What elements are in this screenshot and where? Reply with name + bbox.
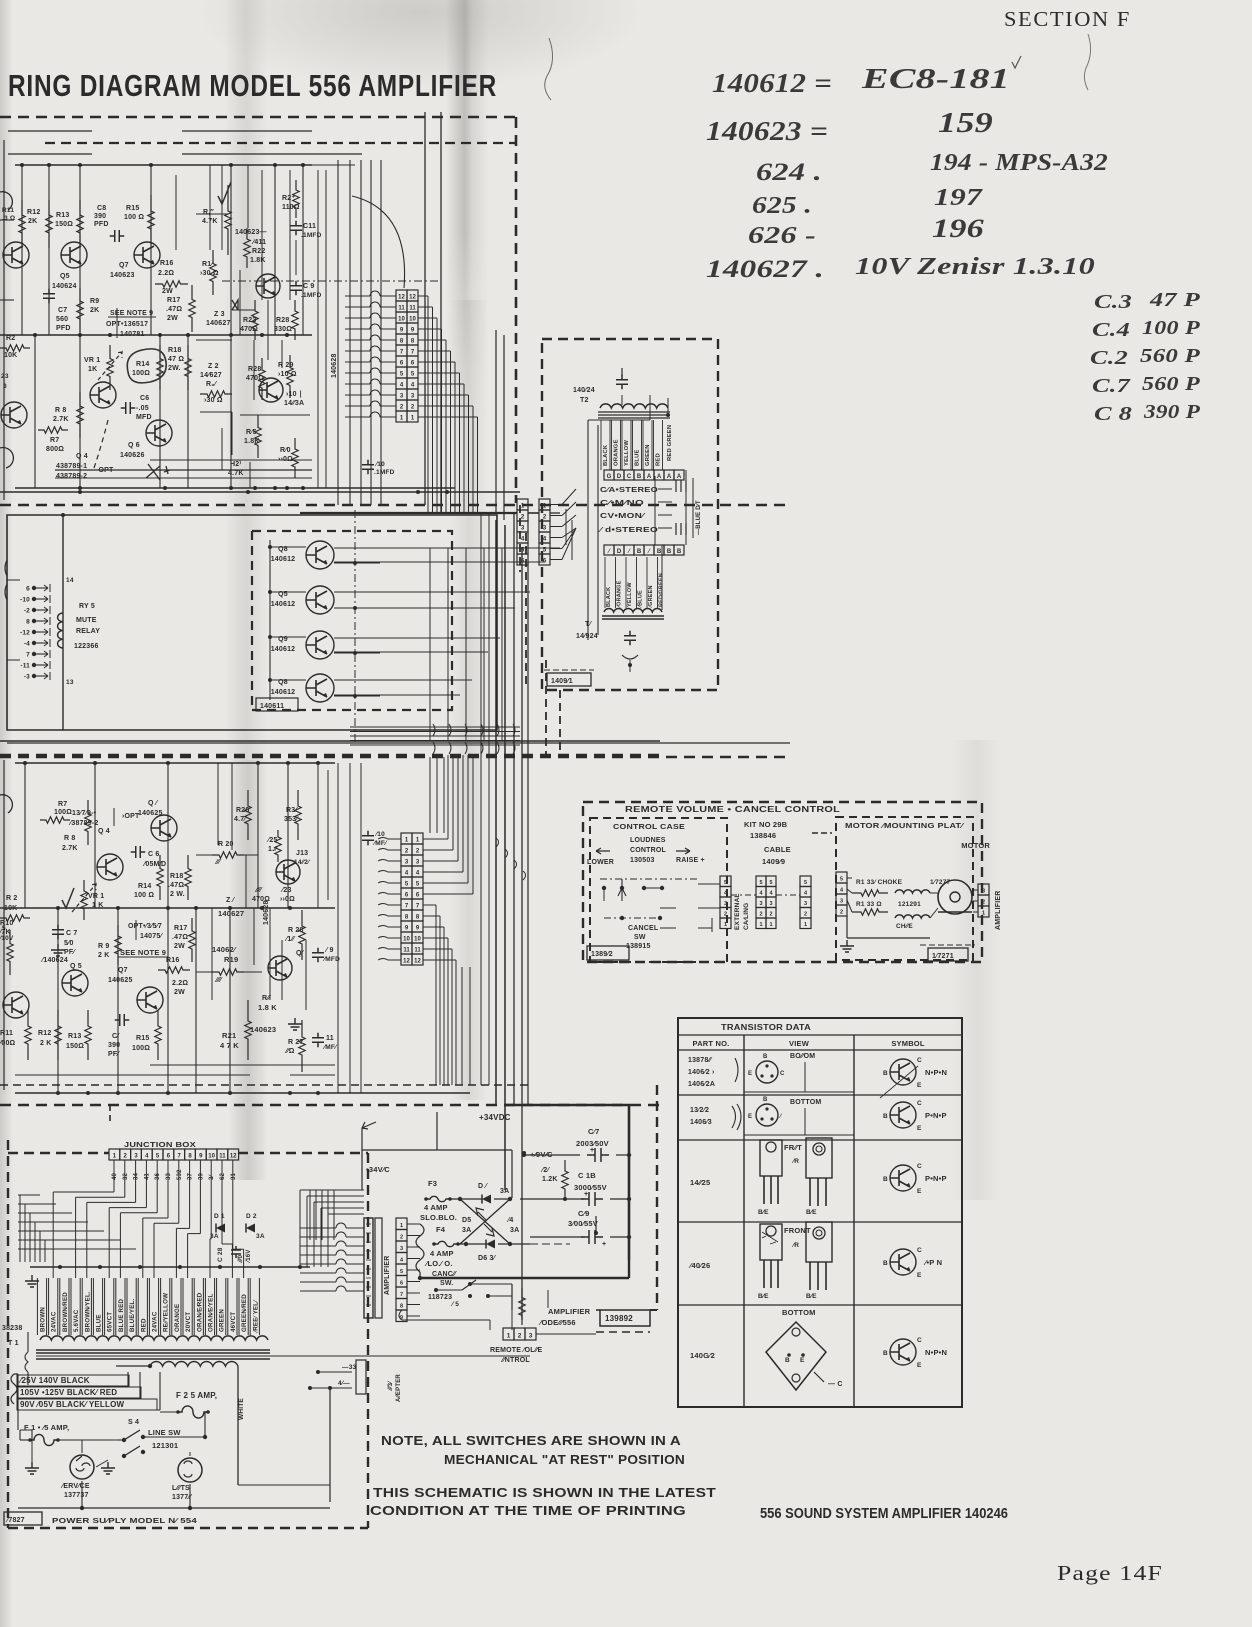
svg-text:3⁄00⁄55V: 3⁄00⁄55V (568, 1219, 598, 1228)
svg-text:10: 10 (409, 317, 416, 323)
wire connector stubs left (345, 295, 370, 297)
svg-text:R11: R11 (0, 1030, 13, 1037)
svg-text:140781: 140781 (120, 331, 145, 338)
svg-text:353⁄: 353⁄ (284, 816, 299, 823)
svg-text:14⁄⁄3A: 14⁄⁄3A (284, 400, 304, 407)
transistor Q5 (61, 242, 87, 268)
resistor R27 (299, 1020, 305, 1072)
svg-text:N•P•N: N•P•N (925, 1068, 947, 1077)
svg-text:R28: R28 (276, 317, 289, 324)
svg-text:R28: R28 (248, 366, 261, 373)
capacitor C18 (581, 1192, 603, 1206)
svg-text:4: 4 (145, 1154, 149, 1160)
svg-text:6: 6 (405, 893, 409, 899)
svg-text:3: 3 (759, 901, 762, 907)
resistor R22 (244, 228, 250, 268)
resistor R25 (275, 830, 281, 862)
svg-text:36: 36 (155, 1172, 161, 1180)
svg-text:CONDITION AT THE TIME OF PRINT: CONDITION AT THE TIME OF PRINTING (370, 1504, 686, 1518)
svg-text:⁄25V 140V BLACK: ⁄25V 140V BLACK (18, 1376, 90, 1385)
wire amp2 left margin (3, 760, 5, 1090)
wire strip feeds (300, 1227, 336, 1229)
svg-text:C11: C11 (303, 223, 316, 230)
wire c19 rail (530, 1236, 584, 1238)
wire relay vertical (62, 515, 64, 730)
svg-text:MUTE: MUTE (76, 617, 97, 624)
amp2 top wire (0, 740, 660, 742)
svg-text:C⁄9: C⁄9 (578, 1209, 589, 1218)
svg-text:E: E (917, 1272, 922, 1279)
wire collector bus (269, 540, 271, 700)
connector amp edge (396, 1218, 407, 1230)
svg-text:3⁄: 3⁄ (209, 1173, 215, 1180)
svg-text:AMPLIFIER: AMPLIFIER (384, 1255, 391, 1295)
svg-text:A⁄⁄EPTER: A⁄⁄EPTER (396, 1374, 402, 1402)
transistor Q1a (3, 242, 29, 268)
svg-text:121291: 121291 (898, 901, 921, 908)
capacitor C28 (231, 1246, 241, 1258)
svg-text:RELAY: RELAY (76, 628, 100, 635)
svg-text:B⁄E: B⁄E (806, 1209, 817, 1216)
svg-text:6: 6 (411, 361, 415, 367)
svg-text:R19: R19 (224, 955, 238, 964)
capacitor C11 (290, 221, 302, 236)
transistor Q10 (259, 378, 283, 402)
svg-text:1: 1 (400, 416, 404, 422)
resistor R20a (200, 391, 232, 397)
wire emitter Q5 (334, 607, 380, 609)
resistor R15b (155, 1010, 161, 1060)
svg-text:JUNCTION BOX: JUNCTION BOX (124, 1140, 196, 1149)
resistor R28b (259, 358, 265, 400)
transistor box 140611 dashed (252, 531, 452, 710)
resistor R7b (40, 817, 70, 823)
svg-text:MFD: MFD (136, 414, 152, 421)
svg-text:1: 1 (804, 922, 807, 928)
label box 140611 (256, 698, 298, 711)
svg-text:65VCT: 65VCT (107, 1312, 114, 1332)
wire conn2 fan (423, 838, 448, 840)
svg-text:14⁄627: 14⁄627 (200, 372, 222, 379)
wire connector fan right (418, 295, 428, 297)
transformer T2 bottom cap (624, 631, 636, 646)
resistor R17 (189, 285, 195, 332)
svg-text:6: 6 (416, 893, 420, 899)
wire density top extra (175, 175, 177, 250)
transformer T2 bottom winding (604, 609, 662, 612)
wire right risers (317, 170, 319, 488)
svg-text:⁄ERV⁄CE: ⁄ERV⁄CE (60, 1483, 90, 1490)
svg-text:MOTOR: MOTOR (961, 841, 990, 850)
wire taps (18, 1385, 128, 1387)
svg-text:560 P: 560 P (1142, 373, 1201, 395)
svg-text:Q5: Q5 (60, 273, 70, 280)
svg-text:—BLUE D⁄T: —BLUE D⁄T (696, 500, 702, 535)
svg-text:140623: 140623 (250, 1025, 276, 1034)
wire blue dot vertical (685, 470, 687, 545)
svg-text:3: 3 (724, 901, 727, 907)
wire verticals left (21, 165, 23, 335)
svg-text:3: 3 (521, 526, 525, 532)
handwritten check b (62, 888, 74, 908)
connector strip amplifier (364, 1218, 373, 1318)
table sym row3 (890, 1165, 916, 1191)
svg-text:BO⁄⁄OM: BO⁄⁄OM (790, 1053, 815, 1060)
svg-text:118723: 118723 (428, 1294, 452, 1301)
svg-text:2: 2 (400, 1234, 403, 1240)
svg-text:SEE NOTE 9: SEE NOTE 9 (120, 948, 166, 957)
diode bridge X (460, 1199, 510, 1244)
table sym row1 (890, 1059, 916, 1085)
svg-text:BOTTOM: BOTTOM (782, 1308, 816, 1317)
svg-text:ORAN⁄E⁄RED: ORAN⁄E⁄RED (196, 1292, 203, 1332)
svg-text:R13: R13 (56, 212, 69, 219)
resistor R7 (38, 427, 68, 433)
svg-text:CONTROL: CONTROL (630, 847, 667, 854)
svg-text:5: 5 (405, 882, 409, 888)
amp2 bottom dashed (0, 1104, 660, 1106)
wire output h2 (334, 591, 530, 593)
wire conn2 left stubs (378, 838, 401, 840)
svg-text:1.8K: 1.8K (244, 438, 260, 445)
svg-text:R22: R22 (252, 248, 265, 255)
svg-text:C⁄7: C⁄7 (588, 1127, 599, 1136)
resistor R21a (225, 185, 231, 255)
svg-text:R2: R2 (6, 335, 15, 342)
svg-text:B: B (763, 1097, 768, 1103)
table col lines (743, 1035, 745, 1407)
svg-text:62: 62 (220, 1172, 226, 1180)
capacitor C9b (312, 948, 324, 963)
dashed border right of rect (656, 1085, 658, 1310)
resistor R27a (293, 180, 299, 218)
connector amp1 12pin (396, 290, 407, 301)
svg-text:7: 7 (178, 1154, 182, 1160)
resistor R18 (185, 345, 191, 390)
svg-text:3: 3 (405, 860, 409, 866)
svg-text:3A: 3A (510, 1227, 519, 1234)
svg-text:5: 5 (759, 880, 762, 886)
svg-text:140625: 140625 (108, 977, 133, 984)
svg-text:5: 5 (769, 880, 772, 886)
svg-text:.47Ω: .47Ω (172, 934, 188, 941)
svg-text:OPT•136517: OPT•136517 (106, 321, 148, 328)
wire amp2 h stubs (196, 854, 212, 856)
svg-text:2: 2 (840, 910, 843, 916)
wire junction bus (30, 1266, 310, 1268)
svg-text:E: E (917, 1125, 922, 1132)
svg-text:-12: -12 (20, 630, 30, 637)
svg-text:Q 5: Q 5 (70, 963, 82, 970)
svg-text:REMOTE VOLUME • CANCEL CON: REMOTE VOLUME • CANCEL CONTROL (625, 805, 840, 814)
svg-text:140627 .: 140627 . (706, 256, 824, 283)
svg-text:BLUE: BLUE (635, 449, 641, 466)
resistor R28a (292, 300, 298, 340)
svg-text:B: B (785, 1357, 790, 1364)
svg-text:47 Ω: 47 Ω (168, 356, 184, 363)
svg-text:CABLE: CABLE (764, 845, 791, 854)
svg-text:BLUE RED: BLUE RED (118, 1298, 125, 1332)
svg-text:-.05: -.05 (136, 405, 149, 412)
relay coil RY5 (58, 613, 63, 648)
svg-text:390: 390 (108, 1042, 120, 1049)
svg-text:R15: R15 (126, 205, 139, 212)
svg-text:SLO.BLO.: SLO.BLO. (420, 1213, 457, 1222)
svg-text:RING DIAGRAM MODEL 556 AMPLIFI: RING DIAGRAM MODEL 556 AMPLIFIER (8, 68, 497, 103)
svg-text:B: B (657, 549, 662, 555)
svg-text:R1 33⁄ CHOKE: R1 33⁄ CHOKE (856, 879, 903, 886)
svg-text:6: 6 (400, 1280, 403, 1286)
resistor R13b (210, 250, 216, 295)
wire thick verticals down (495, 520, 497, 1105)
svg-text:C 6: C 6 (148, 851, 160, 858)
svg-text:C 7: C 7 (66, 930, 78, 937)
svg-text:ORANGE: ORANGE (174, 1304, 181, 1332)
svg-text:B: B (883, 1176, 888, 1183)
svg-text:G: G (607, 474, 612, 480)
wire output h4 (334, 679, 472, 681)
svg-text:⁄38789-2: ⁄38789-2 (68, 820, 98, 827)
wire spk fan (550, 504, 562, 506)
svg-text:2W: 2W (167, 315, 178, 322)
wire edge stubs (407, 1223, 420, 1225)
svg-text:⁄ORANGE: ⁄ORANGE (617, 580, 623, 609)
svg-text:B: B (883, 1350, 888, 1357)
svg-text:D: D (617, 474, 622, 480)
svg-text:13: 13 (66, 679, 74, 686)
svg-text:1 K: 1 K (92, 902, 104, 909)
svg-text:10: 10 (398, 317, 405, 323)
transistor Q11 (268, 956, 292, 980)
wire ps left edge (18, 1374, 20, 1440)
svg-text:C.2: C.2 (1090, 347, 1128, 369)
svg-text:RED: RED (140, 1318, 147, 1332)
svg-text:1406⁄2 ›: 1406⁄2 › (688, 1069, 715, 1076)
svg-text:2 K: 2 K (98, 952, 110, 959)
wire amp2 bottom bus (15, 1092, 470, 1094)
svg-text:R17: R17 (167, 297, 180, 304)
wire top bus (15, 164, 312, 166)
transformer T2 top winding (600, 404, 668, 408)
wire vertical bundle A (337, 160, 339, 505)
svg-text:⁄25: ⁄25 (266, 837, 278, 844)
wire right bundle junction (300, 1189, 364, 1191)
wire conn2 fan lower (423, 904, 436, 906)
svg-text:196: 196 (932, 214, 984, 243)
svg-text:⁄⁄Ω: ⁄⁄Ω (284, 1048, 295, 1055)
remote box dashed border (583, 802, 982, 962)
svg-text:8: 8 (416, 915, 420, 921)
svg-text:11: 11 (409, 306, 416, 312)
T1 winding wires (36, 1278, 38, 1335)
capacitor C17 (587, 1148, 609, 1162)
svg-text:130503: 130503 (630, 857, 655, 864)
svg-text:⁄⁄NTROL: ⁄⁄NTROL (500, 1357, 530, 1364)
svg-text:2: 2 (724, 912, 727, 918)
svg-text:+: + (602, 1241, 606, 1248)
resistor R30 (295, 790, 301, 840)
svg-text:1⁄7277: 1⁄7277 (930, 879, 951, 886)
wire amp2 top bus (15, 762, 335, 764)
svg-text:11: 11 (414, 948, 421, 954)
scan shading top (160, 0, 680, 120)
svg-text:7: 7 (400, 1292, 403, 1298)
svg-text:625 .: 625 . (752, 193, 812, 219)
svg-text:139892: 139892 (605, 1314, 633, 1323)
svg-text:2: 2 (804, 912, 807, 918)
svg-text:C: C (917, 1337, 922, 1344)
wire harness dashed v3 (545, 660, 547, 757)
label box 138962 (587, 946, 629, 960)
inductor choke1 (895, 890, 930, 893)
wire junction drops (113, 1160, 115, 1187)
svg-text:T2: T2 (580, 397, 589, 404)
handwritten circle around R14 (127, 349, 166, 383)
svg-text:1.8K: 1.8K (250, 257, 266, 264)
fuse F2 (178, 1406, 208, 1418)
svg-text:R 29: R 29 (278, 362, 294, 369)
ground ps left (25, 1462, 39, 1474)
svg-text:C: C (917, 1057, 922, 1064)
svg-text:3A: 3A (256, 1233, 265, 1240)
svg-text:138846: 138846 (750, 831, 776, 840)
svg-text:R18: R18 (168, 347, 181, 354)
svg-text:5: 5 (416, 882, 420, 888)
faint streak right (952, 740, 1000, 1200)
svg-text:B⁄E: B⁄E (758, 1293, 769, 1300)
resistor R10b (7, 930, 13, 975)
svg-text:1: 1 (400, 1223, 403, 1229)
svg-text:9: 9 (416, 926, 420, 932)
svg-text:-11: -11 (20, 663, 30, 670)
svg-text:8: 8 (188, 1154, 192, 1160)
motor plate dashed box (836, 817, 973, 960)
svg-text:9: 9 (405, 926, 409, 932)
svg-text:R 9: R 9 (98, 943, 110, 950)
svg-text:SW.: SW. (440, 1280, 453, 1287)
svg-text:B⁄E: B⁄E (758, 1209, 769, 1216)
svg-text:14075⁄: 14075⁄ (140, 933, 163, 940)
svg-text:100 Ω: 100 Ω (134, 892, 154, 899)
switch S4 (122, 1438, 126, 1442)
svg-text:NOTE, ALL SWITCHES ARE SHOWN I: NOTE, ALL SWITCHES ARE SHOWN IN A (381, 1434, 681, 1448)
svg-text:B: B (667, 549, 672, 555)
remote pot contacts (602, 886, 606, 890)
wire junction routing (113, 1187, 115, 1192)
svg-text:626 -: 626 - (748, 223, 816, 249)
svg-text:140G⁄2: 140G⁄2 (690, 1351, 715, 1360)
svg-text:F4: F4 (436, 1225, 446, 1234)
ground motor (840, 940, 854, 952)
svg-text:1409⁄1: 1409⁄1 (551, 678, 573, 685)
wire bus above relay (0, 491, 520, 493)
wire lower bus (55, 469, 312, 471)
transistor Q5b (62, 970, 88, 996)
resistor R14 (157, 345, 163, 390)
svg-text:1: 1 (982, 911, 985, 917)
svg-text:⁄: ⁄ (606, 549, 611, 555)
potentiometer VR1 (107, 345, 113, 390)
svg-text:11: 11 (326, 1035, 334, 1042)
table outer frame (678, 1018, 962, 1407)
svg-text:4.7K: 4.7K (228, 470, 244, 477)
handwritten x3 (146, 464, 170, 480)
svg-text:A: A (677, 474, 682, 480)
wire remote links (399, 1310, 402, 1320)
svg-text:POWER SU⁄PLY MODEL N⁄ 554: POWER SU⁄PLY MODEL N⁄ 554 (52, 1516, 198, 1525)
svg-text:105V •125V BLACK⁄ RED: 105V •125V BLACK⁄ RED (20, 1388, 117, 1397)
svg-text:R11: R11 (2, 207, 14, 214)
svg-text:+: + (590, 1147, 594, 1154)
svg-text:8: 8 (400, 339, 404, 345)
svg-text:D5: D5 (462, 1217, 471, 1224)
svg-text:140627: 140627 (206, 320, 231, 327)
transistor Q5 output (306, 586, 334, 614)
svg-text:-2: -2 (24, 608, 30, 615)
svg-text:32: 32 (123, 1172, 129, 1180)
svg-text:5: 5 (156, 1154, 160, 1160)
svg-text:LOUDNES: LOUDNES (630, 837, 666, 844)
svg-text:R15: R15 (136, 1035, 149, 1042)
svg-text:P•N•P: P•N•P (925, 1174, 947, 1183)
svg-text:1: 1 (416, 838, 420, 844)
svg-text:CANCEL: CANCEL (628, 925, 659, 932)
svg-text:1: 1 (405, 838, 409, 844)
svg-text:C⁄•M⁄NO: C⁄•M⁄NO (600, 500, 645, 507)
resistor R2b (0, 915, 30, 921)
wire bottom hop bumps (433, 724, 435, 754)
wire thick bus to connector (300, 512, 517, 514)
svg-text:B⁄E: B⁄E (806, 1293, 817, 1300)
svg-text:⁄140624: ⁄140624 (40, 957, 68, 964)
svg-text:2 W.: 2 W. (170, 891, 185, 898)
svg-text:+: + (584, 1191, 588, 1198)
svg-text:MOTOR ⁄MOUNTING PLAT⁄: MOTOR ⁄MOUNTING PLAT⁄ (845, 821, 965, 830)
svg-text:E: E (748, 1114, 752, 1120)
svg-text:B: B (637, 549, 642, 555)
svg-text:100Ω: 100Ω (54, 809, 72, 816)
wire c17 rail (524, 1154, 580, 1156)
wire strip riser (309, 1190, 311, 1240)
svg-text:R 27: R 27 (288, 1039, 304, 1046)
amp1 inner dashed border (45, 142, 516, 144)
table view row1 (756, 1061, 778, 1083)
svg-text:100Ω: 100Ω (132, 370, 150, 377)
svg-text:438789-1: 438789-1 (56, 463, 87, 470)
svg-text:159: 159 (938, 108, 993, 139)
wire density bot extra (211, 908, 213, 1000)
svg-text:3: 3 (804, 901, 807, 907)
svg-text:⁄411: ⁄411 (251, 239, 266, 246)
svg-text:1.2K: 1.2K (542, 1176, 558, 1183)
ground junction (25, 1275, 39, 1287)
svg-text:3: 3 (411, 394, 415, 400)
wire spk top link (588, 419, 650, 421)
svg-text:E: E (748, 1071, 752, 1077)
svg-text:10: 10 (414, 937, 421, 943)
svg-text:137737: 137737 (64, 1492, 89, 1499)
svg-text:4: 4 (416, 871, 420, 877)
svg-text:FRONT: FRONT (784, 1226, 811, 1235)
wire junction left runs (18, 1194, 40, 1196)
resistor R28 (299, 910, 305, 960)
wire motor bottom (846, 916, 848, 938)
svg-text:-4: -4 (24, 641, 30, 648)
dashed corner 139892 (650, 1309, 657, 1311)
svg-text:1K: 1K (88, 366, 97, 373)
svg-text:-OPT: -OPT (96, 467, 114, 474)
speaker box dashed border (542, 339, 718, 690)
